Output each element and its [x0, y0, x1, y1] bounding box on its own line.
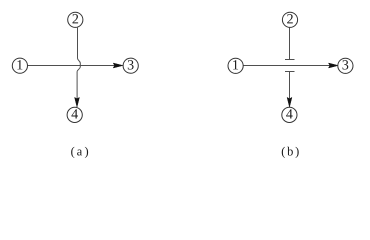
- node 2: [282, 12, 297, 27]
- node 3: [338, 58, 353, 73]
- arrowhead into node 3: [113, 63, 123, 68]
- node 4: [282, 107, 297, 122]
- arrowhead into node 3: [329, 63, 339, 68]
- lower break tick: [285, 71, 295, 73]
- node 4: [67, 107, 82, 122]
- upper break tick: [285, 59, 295, 61]
- arrowhead into node 4: [75, 97, 80, 107]
- node 1: [228, 58, 243, 73]
- arrowhead into node 4: [287, 97, 292, 107]
- caption (b): [282, 147, 299, 158]
- wire 2-4 vertical with crossover jog: [77, 28, 80, 99]
- wire 1-3 horizontal: [28, 65, 115, 67]
- caption (a): [71, 147, 88, 158]
- node 2: [68, 12, 83, 27]
- wire 1-3 horizontal: [243, 65, 330, 67]
- wire from node 2, upper stub: [289, 28, 291, 60]
- node 1: [12, 58, 27, 73]
- node 3: [123, 58, 138, 73]
- wire to node 4, lower stub: [289, 72, 291, 99]
